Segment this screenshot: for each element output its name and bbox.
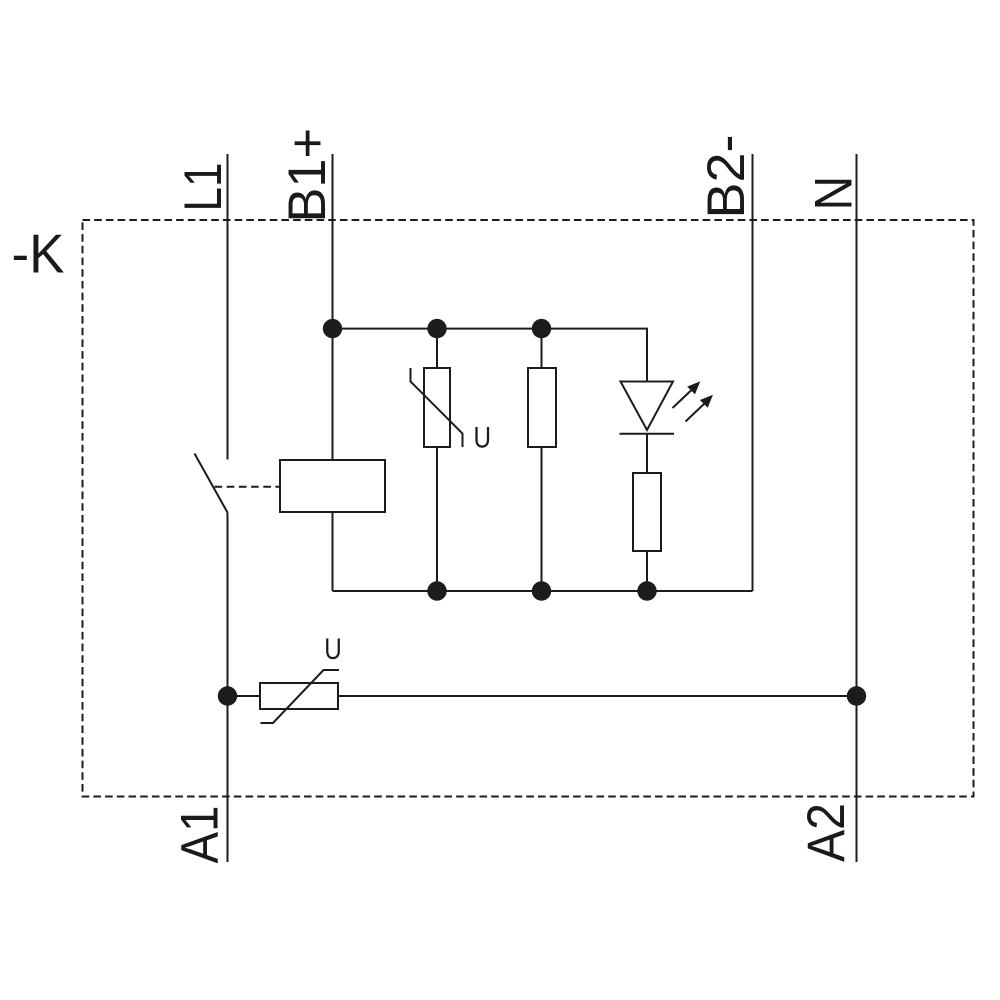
svg-text:A1: A1 bbox=[171, 806, 230, 864]
enclosure dashed border of relay -K bbox=[83, 220, 974, 797]
varistor RV1 body bbox=[424, 368, 450, 447]
label L1 bbox=[174, 163, 233, 212]
junction dot A2 / RV2 bbox=[847, 686, 866, 705]
label -K bbox=[12, 224, 65, 285]
LED light arrow 1 shaft bbox=[673, 390, 692, 408]
svg-text:U: U bbox=[474, 422, 492, 455]
wire: resistor R1 top lead bbox=[541, 329, 543, 368]
resistor R2 body bbox=[633, 473, 661, 551]
terminal line B1+ (down to coil) bbox=[332, 154, 334, 460]
terminal line B2- (down to bottom bus corner) bbox=[752, 154, 754, 591]
svg-text:U: U bbox=[324, 633, 342, 666]
junction dot top bus / RV1 bbox=[427, 319, 446, 338]
wire: resistor R2 bottom lead bbox=[646, 551, 648, 591]
svg-text:L1: L1 bbox=[174, 163, 233, 212]
wire: varistor RV2 to A2 node bbox=[338, 695, 857, 697]
junction dot A1 / RV2 bbox=[218, 686, 237, 705]
LED light arrow 2 shaft bbox=[686, 404, 705, 422]
svg-text:B1+: B1+ bbox=[278, 128, 337, 223]
varistor RV1 diagonal stroke bbox=[411, 368, 463, 447]
junction dot bottom bus / R1 bbox=[532, 581, 551, 600]
terminal line N/A2 bbox=[856, 154, 858, 862]
label A1 bbox=[171, 806, 230, 864]
terminal line L1/A1 (lower segment below switch to A1 end) bbox=[227, 513, 229, 863]
label B1+ bbox=[278, 128, 337, 223]
junction dot top bus / R1 bbox=[532, 319, 551, 338]
svg-text:-K: -K bbox=[12, 224, 65, 285]
varistor RV2 body bbox=[260, 683, 338, 709]
junction dot at B1+ / top bus bbox=[323, 319, 342, 338]
junction dot bottom bus / R2 bbox=[637, 581, 656, 600]
wire: A1 node to varistor RV2 bbox=[228, 695, 261, 697]
junction dot bottom bus / RV1 bbox=[427, 581, 446, 600]
wire: varistor RV1 bottom lead bbox=[436, 447, 438, 591]
label U of varistor RV2 bbox=[324, 633, 342, 666]
wire: top bus from B1+ to LED branch bbox=[333, 329, 648, 382]
varistor RV2 diagonal stroke bbox=[261, 670, 340, 723]
label N bbox=[805, 176, 864, 211]
LED light arrow 2 head bbox=[700, 395, 713, 408]
wire: varistor RV1 top lead bbox=[436, 329, 438, 368]
wire: coil bottom lead to bottom bus bbox=[332, 512, 334, 591]
terminal line L1/A1 (upper segment above switch) bbox=[227, 154, 229, 460]
relay coil K body bbox=[280, 460, 385, 512]
svg-text:A2: A2 bbox=[797, 803, 856, 862]
label B2- bbox=[697, 135, 756, 219]
switch contact blade bbox=[195, 454, 228, 513]
LED D1 triangle (anode) bbox=[621, 382, 674, 431]
LED light arrow 1 head bbox=[687, 381, 700, 394]
wire: resistor R1 bottom lead bbox=[541, 447, 543, 591]
resistor R1 body bbox=[528, 368, 556, 447]
svg-text:N: N bbox=[805, 176, 864, 211]
wire: bottom bus bbox=[333, 590, 753, 592]
LED D1 cathode bar bbox=[620, 433, 675, 435]
wire: LED to resistor R2 bbox=[646, 434, 648, 473]
label U of varistor RV1 bbox=[474, 422, 492, 455]
mechanical link (dashed) from blade to coil bbox=[215, 486, 281, 488]
svg-text:B2-: B2- bbox=[697, 135, 756, 219]
label A2 bbox=[797, 803, 856, 862]
